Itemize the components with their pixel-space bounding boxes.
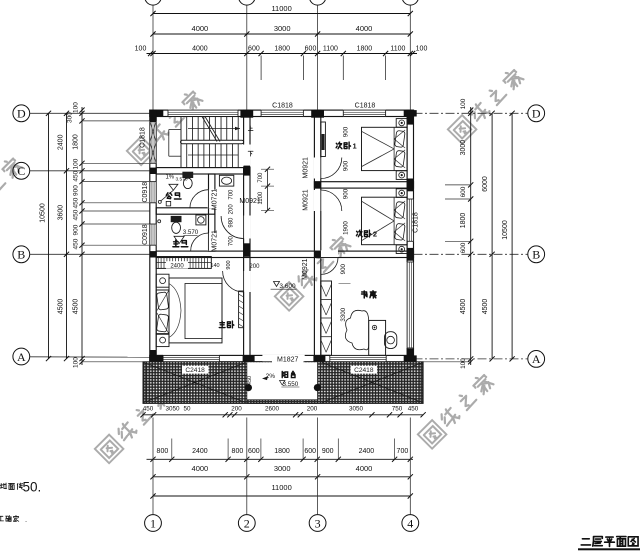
svg-text:450: 450 — [408, 405, 419, 412]
svg-text:450: 450 — [247, 376, 253, 385]
svg-text:3000: 3000 — [274, 464, 291, 473]
svg-text:1: 1 — [353, 141, 357, 150]
svg-text:700: 700 — [258, 172, 264, 183]
svg-text:200: 200 — [231, 405, 242, 412]
svg-text:1800: 1800 — [274, 448, 290, 455]
svg-text:11000: 11000 — [271, 483, 291, 492]
svg-text:3000: 3000 — [274, 24, 291, 33]
svg-text:3000: 3000 — [460, 140, 467, 156]
svg-text:450: 450 — [73, 170, 80, 181]
svg-text:2400: 2400 — [359, 448, 375, 455]
svg-text:10500: 10500 — [502, 220, 509, 240]
svg-text:B: B — [532, 248, 540, 262]
svg-text:C0918: C0918 — [142, 182, 149, 203]
svg-text:4500: 4500 — [57, 299, 64, 315]
svg-text:200: 200 — [249, 264, 260, 270]
svg-text:1800: 1800 — [73, 134, 80, 150]
svg-text:C: C — [17, 164, 25, 178]
svg-text:1100: 1100 — [258, 191, 264, 205]
svg-text:900: 900 — [73, 185, 80, 196]
svg-text:C2418: C2418 — [354, 367, 374, 374]
svg-text:100: 100 — [73, 158, 80, 169]
svg-text:4000: 4000 — [192, 464, 209, 473]
svg-text:A: A — [17, 350, 26, 364]
svg-text:4500: 4500 — [73, 299, 80, 315]
svg-text:4000: 4000 — [356, 24, 373, 33]
svg-text:4: 4 — [407, 516, 413, 530]
svg-text:4500: 4500 — [460, 299, 467, 315]
svg-text:3050: 3050 — [349, 405, 364, 412]
svg-text:100: 100 — [416, 46, 428, 53]
svg-text:900: 900 — [226, 260, 232, 269]
svg-text:900: 900 — [73, 224, 80, 235]
svg-text:1900: 1900 — [343, 221, 350, 235]
svg-text:.: . — [25, 515, 27, 524]
svg-text:10500: 10500 — [39, 203, 46, 223]
svg-text:450: 450 — [73, 197, 80, 208]
svg-text:2600: 2600 — [265, 405, 280, 412]
svg-text:300: 300 — [67, 112, 74, 123]
svg-text:900: 900 — [340, 263, 347, 274]
svg-text:D: D — [532, 107, 541, 121]
svg-text:200: 200 — [307, 405, 318, 412]
svg-text:B: B — [17, 248, 25, 262]
svg-text:1800: 1800 — [357, 46, 373, 53]
svg-text:900: 900 — [343, 188, 350, 199]
svg-text:600: 600 — [248, 448, 260, 455]
svg-text:700: 700 — [229, 189, 235, 200]
svg-text:1100: 1100 — [390, 46, 405, 53]
svg-text:4000: 4000 — [192, 46, 208, 53]
svg-text:3: 3 — [315, 516, 321, 530]
svg-text:M0721: M0721 — [212, 230, 219, 252]
svg-text:2400: 2400 — [57, 134, 64, 150]
svg-text:2400: 2400 — [170, 263, 184, 269]
svg-text:600: 600 — [304, 448, 316, 455]
svg-text:700: 700 — [229, 235, 235, 246]
svg-text:D: D — [17, 107, 26, 121]
svg-text:600: 600 — [305, 46, 317, 53]
svg-text:3.570: 3.570 — [175, 177, 187, 183]
svg-text:1: 1 — [150, 516, 156, 530]
svg-text:100: 100 — [460, 358, 467, 369]
svg-text:700: 700 — [397, 448, 409, 455]
svg-text:800: 800 — [157, 448, 169, 455]
svg-text:1100: 1100 — [323, 46, 338, 53]
svg-text:C1818: C1818 — [272, 102, 293, 109]
svg-text:M0721: M0721 — [212, 189, 219, 211]
svg-text:50: 50 — [183, 405, 191, 412]
svg-text:50.: 50. — [23, 480, 42, 495]
svg-text:750: 750 — [392, 405, 403, 412]
svg-text:C1818: C1818 — [355, 102, 376, 109]
svg-text:200: 200 — [229, 204, 235, 215]
svg-text:980: 980 — [229, 217, 235, 228]
svg-text:3300: 3300 — [340, 307, 347, 321]
svg-text:900: 900 — [343, 126, 350, 137]
svg-text:C1818: C1818 — [140, 127, 147, 148]
svg-text:100: 100 — [460, 98, 467, 109]
svg-text:C1818: C1818 — [413, 212, 420, 233]
svg-text:4500: 4500 — [482, 299, 489, 315]
svg-text:450: 450 — [73, 209, 80, 220]
svg-text:140: 140 — [210, 263, 219, 269]
svg-text:M1827: M1827 — [277, 356, 299, 363]
svg-text:M0921: M0921 — [303, 189, 310, 211]
svg-text:3.600: 3.600 — [279, 283, 296, 290]
svg-text:3050: 3050 — [165, 405, 180, 412]
svg-text:900: 900 — [322, 448, 334, 455]
svg-text:1%: 1% — [165, 175, 174, 181]
svg-text:M0921: M0921 — [302, 258, 309, 280]
svg-text:A: A — [532, 352, 541, 366]
svg-text:3600: 3600 — [57, 205, 64, 221]
svg-text:2: 2 — [373, 229, 377, 238]
svg-text:800: 800 — [232, 448, 244, 455]
svg-text:6000: 6000 — [482, 176, 489, 192]
svg-text:600: 600 — [248, 46, 260, 53]
svg-text:1800: 1800 — [460, 213, 467, 229]
svg-text:11000: 11000 — [271, 4, 291, 13]
svg-text:2400: 2400 — [192, 448, 208, 455]
svg-text:600: 600 — [460, 242, 467, 253]
svg-text:450: 450 — [143, 405, 154, 412]
svg-text:100: 100 — [73, 357, 80, 368]
svg-text:4000: 4000 — [356, 464, 373, 473]
svg-text:C0918: C0918 — [142, 224, 149, 245]
svg-text:M0921: M0921 — [303, 157, 310, 179]
svg-text:900: 900 — [343, 160, 350, 171]
svg-text:2: 2 — [244, 516, 250, 530]
svg-text:1800: 1800 — [274, 46, 290, 53]
svg-text:600: 600 — [460, 186, 467, 197]
svg-text:4000: 4000 — [192, 24, 209, 33]
svg-text:450: 450 — [73, 238, 80, 249]
svg-text:100: 100 — [73, 102, 80, 113]
svg-text:100: 100 — [135, 46, 147, 53]
svg-text:C2418: C2418 — [185, 367, 205, 374]
